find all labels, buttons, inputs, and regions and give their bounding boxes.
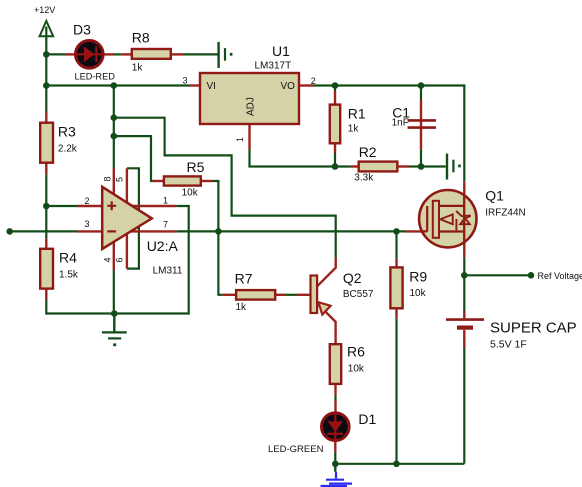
wire R9 column	[395, 231, 397, 463]
svg-text:U2:A: U2:A	[147, 238, 179, 254]
wire net A (+12V to Q2 emitter)	[114, 118, 336, 258]
wire C1 column	[420, 86, 422, 167]
resistor R9	[390, 258, 427, 318]
wire Q1 source down to ref node	[463, 258, 465, 311]
svg-text:R1: R1	[348, 106, 366, 122]
svg-text:Ref Voltage: Ref Voltage	[538, 271, 582, 281]
svg-text:R4: R4	[59, 250, 77, 266]
svg-text:1: 1	[163, 196, 168, 206]
node rail-VI	[43, 82, 50, 89]
svg-text:R8: R8	[132, 30, 150, 46]
resistor R4	[40, 239, 79, 301]
svg-text:R2: R2	[359, 144, 377, 160]
svg-text:4: 4	[103, 257, 113, 262]
ground (blue) bottom	[321, 464, 353, 486]
svg-text:1k: 1k	[132, 63, 144, 74]
svg-text:8: 8	[103, 176, 113, 181]
node pin8 tap	[111, 82, 118, 89]
svg-text:D3: D3	[73, 22, 91, 38]
svg-text:R7: R7	[235, 271, 253, 287]
svg-text:6: 6	[115, 257, 125, 262]
resistor R8	[122, 30, 183, 74]
resistor R6	[330, 344, 365, 396]
LED D1	[268, 400, 377, 455]
resistor R2	[351, 144, 409, 184]
resistor R1	[330, 91, 366, 153]
node VO-R1	[332, 82, 339, 89]
svg-text:R6: R6	[347, 344, 365, 360]
resistor R7	[223, 271, 286, 314]
node pin3 terminal dot	[6, 228, 13, 235]
resistor R5	[153, 159, 213, 199]
svg-text:IRFZ44N: IRFZ44N	[485, 208, 526, 219]
wire op-amp pin3 row	[10, 230, 78, 232]
svg-text:VI: VI	[207, 81, 216, 92]
node netA tap	[111, 114, 118, 121]
svg-text:LED-GREEN: LED-GREEN	[268, 444, 324, 455]
svg-text:LM311: LM311	[153, 266, 183, 277]
svg-text:1k: 1k	[348, 124, 360, 135]
resistor R3	[40, 112, 78, 175]
ground (rotated) after R2	[447, 154, 461, 180]
svg-text:2: 2	[84, 196, 89, 206]
svg-text:10k: 10k	[410, 288, 427, 299]
node R2-C1 row	[418, 163, 425, 170]
svg-text:10k: 10k	[348, 364, 365, 375]
svg-text:2.2k: 2.2k	[58, 144, 78, 155]
mosfet Q1 IRFZ44N	[406, 181, 526, 257]
transistor Q2 BC557	[297, 258, 374, 345]
svg-text:5: 5	[115, 177, 125, 182]
svg-text:3: 3	[84, 219, 89, 229]
node D1 cathode bottom	[332, 461, 339, 468]
wire bottom row	[335, 463, 464, 465]
+12V power terminal	[34, 5, 55, 54]
svg-text:3: 3	[182, 76, 187, 86]
wire R1 column	[334, 86, 336, 167]
svg-text:1k: 1k	[236, 302, 248, 313]
svg-text:BC557: BC557	[343, 289, 374, 300]
svg-text:LED-RED: LED-RED	[75, 71, 116, 81]
svg-text:7: 7	[163, 220, 168, 230]
node output-R9	[393, 228, 400, 235]
svg-text:2: 2	[311, 76, 316, 86]
node netB tap	[111, 133, 118, 140]
svg-text:VO: VO	[281, 81, 296, 92]
node rail-D3	[43, 51, 50, 58]
wire R5 right to output row	[213, 181, 219, 231]
capacitor C1	[392, 100, 436, 150]
wire ground row left	[46, 312, 114, 314]
svg-text:Q2: Q2	[343, 270, 362, 286]
node VO-C1	[418, 82, 425, 89]
svg-text:LM317T: LM317T	[255, 61, 292, 72]
svg-text:R3: R3	[58, 124, 76, 140]
wire pin1 to ground	[114, 206, 188, 314]
node ground-left	[111, 310, 118, 317]
svg-text:+12V: +12V	[34, 5, 55, 15]
wire net B (+12V to R5 left)	[114, 136, 153, 181]
wire ref voltage row	[464, 274, 531, 276]
wire R7 to Q2 base	[286, 294, 297, 296]
svg-text:R5: R5	[187, 159, 205, 175]
wire op-amp pin2 row	[46, 205, 77, 207]
wire pin5-pin6 tie	[127, 168, 139, 268]
wire output down to R7	[218, 231, 222, 294]
node rail-pin2	[43, 203, 50, 210]
wire output row (pin7 to Q1 gate)	[176, 230, 405, 232]
svg-text:1.5k: 1.5k	[59, 270, 79, 281]
svg-text:D1: D1	[358, 411, 376, 427]
svg-text:R9: R9	[409, 269, 427, 285]
wire R6 to D1	[334, 395, 336, 464]
ground symbol bottom-left	[102, 314, 127, 347]
svg-text:1: 1	[235, 137, 245, 142]
wire +12V to U1 VI row	[46, 84, 189, 86]
wire op-amp V+ column (pin 8)	[113, 86, 115, 169]
regulator U1 LM317T	[182, 43, 315, 149]
svg-text:3.3k: 3.3k	[354, 173, 374, 184]
svg-text:U1: U1	[272, 43, 290, 59]
svg-text:Q1: Q1	[485, 188, 504, 204]
wire D3 row	[46, 53, 217, 55]
svg-text:5.5V 1F: 5.5V 1F	[490, 339, 527, 351]
svg-text:SUPER CAP: SUPER CAP	[490, 320, 577, 337]
node refvoltage junction	[461, 272, 468, 279]
node ref voltage terminal dot	[528, 272, 535, 279]
node output-R5	[215, 228, 222, 235]
node R1-R2 row	[332, 163, 339, 170]
wire supercap bottom to bottom row	[463, 348, 465, 464]
node R9 bottom	[393, 461, 400, 468]
svg-text:10k: 10k	[182, 188, 199, 199]
supercap battery symbol	[446, 311, 577, 351]
svg-text:1nF: 1nF	[392, 118, 409, 129]
svg-text:ADJ: ADJ	[246, 97, 257, 116]
wire U1 VO row	[314, 86, 465, 182]
wire ADJ / R2 row	[250, 149, 446, 166]
wire left rail	[45, 54, 47, 314]
op-amp U2:A LM311	[78, 168, 183, 276]
LED D3	[66, 22, 115, 82]
wire pin4 to ground	[113, 270, 115, 313]
ground (rotated) after R8	[219, 42, 233, 68]
